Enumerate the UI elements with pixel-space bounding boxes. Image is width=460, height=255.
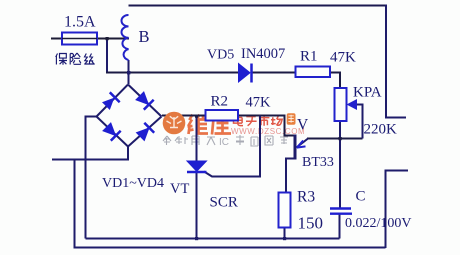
wire right rail lower with load stub: [386, 171, 409, 249]
svg-text:KPA: KPA: [353, 85, 382, 101]
svg-text:C: C: [356, 189, 366, 205]
wire fuse to junction: [97, 38, 129, 40]
diode VD3 bottom-left (points to bottom vertex): [102, 122, 121, 141]
wire SCR cathode down: [196, 172, 198, 239]
BT33 emitter diagonal: [297, 139, 309, 148]
svg-text:47K: 47K: [246, 95, 272, 111]
diode bridge VD1~VD4: [97, 85, 162, 147]
wire R2 to V node corner down to BT33 base2: [238, 116, 295, 136]
svg-text:B: B: [139, 27, 150, 46]
potentiometer KPA wiper arrow: [347, 99, 358, 110]
svg-text:0.022/100V: 0.022/100V: [345, 216, 412, 231]
transformer coil B: [122, 15, 129, 60]
node R2 input wire from bridge right vertex: [162, 115, 206, 117]
wire BT33 base1 elbow to R3: [286, 159, 295, 193]
wire right rail upper: [386, 5, 406, 118]
fuse F 1.5A: [62, 33, 97, 45]
svg-text:220K: 220K: [364, 122, 398, 138]
svg-text:SCR: SCR: [210, 195, 238, 211]
wire SCR gate to V node riser: [204, 116, 260, 177]
junction dot SCR anode on R2 wire: [195, 115, 198, 118]
wire bridge bottom vertex down to AC input 2 line: [52, 146, 128, 160]
junction dot SCR cathode on inner rail: [195, 237, 198, 240]
watermark logo circle: [163, 112, 186, 135]
junction dot R3 on inner rail: [283, 237, 286, 240]
bridge side bottom-right wire: [128, 117, 162, 147]
wire outer bottom rail: [74, 247, 386, 249]
svg-text:IC: IC: [219, 137, 229, 148]
wire VD5 cathode to R1: [252, 72, 296, 74]
wire fuse input lead: [51, 38, 62, 40]
BT33 emitter arrowhead: [297, 141, 306, 148]
svg-text:R3: R3: [297, 189, 315, 206]
wire R3 bottom lead: [284, 228, 286, 239]
junction dot fuse tap: [106, 37, 109, 40]
svg-text:47K: 47K: [330, 50, 356, 66]
label fuse chinese 保险丝: [56, 53, 95, 65]
wire KPA bottom lead to capacitor top: [339, 121, 341, 208]
svg-text:BT33: BT33: [302, 155, 334, 170]
resistor R1 47K: [296, 67, 331, 78]
junction dot emitter / KPA lead: [339, 137, 342, 140]
diode VD4 bottom-right (points to right vertex): [135, 123, 154, 142]
junction dot rectifier rail / coil bottom: [127, 71, 130, 74]
svg-text:R2: R2: [211, 94, 229, 110]
wire outer left vertical: [74, 160, 76, 248]
svg-text:VD1~VD4: VD1~VD4: [102, 176, 164, 191]
svg-text:VT: VT: [170, 181, 189, 197]
resistor R3 150: [279, 193, 291, 228]
bridge side top-left wire: [97, 85, 129, 117]
wire KPA wiper tail corner down: [356, 105, 363, 139]
wire top rail: [129, 5, 387, 7]
wire SCR anode: [196, 116, 198, 162]
wire coil bottom / bridge top junction: [128, 60, 130, 84]
bridge side top-right wire: [128, 85, 162, 117]
watermark text 全球最大IC采购网站 (gray): [163, 134, 288, 148]
svg-text:1.5A: 1.5A: [64, 14, 96, 31]
wire capacitor bottom lead: [339, 214, 341, 239]
svg-text:IN4007: IN4007: [241, 46, 285, 62]
wire junction down to rectifier rail: [106, 39, 108, 73]
bridge side bottom-left wire: [97, 117, 129, 147]
wire R1 to KPA top corner: [330, 73, 340, 89]
BT33 base bar: [294, 135, 297, 160]
resistor R2 47K: [206, 110, 239, 121]
svg-text:V: V: [297, 117, 309, 134]
svg-text:150: 150: [298, 214, 324, 233]
diode VD2 top-right (points to right vertex): [135, 91, 154, 110]
wire BT33 emitter horizontal: [307, 138, 363, 140]
diode VD1 top-left (points to top vertex): [101, 92, 120, 111]
watermark text 电子市场 (red outline): [234, 115, 283, 126]
watermark text 维库 (bold orange): [188, 114, 232, 135]
thyristor VT SCR: [187, 161, 207, 172]
watermark logo block (orange square 网): [287, 113, 296, 124]
wire bridge left vertex elbow down: [86, 117, 98, 239]
potentiometer KPA body: [335, 88, 347, 121]
diode VD5 IN4007: [239, 64, 252, 83]
capacitor C 0.022/100V: [330, 209, 352, 214]
wire rectifier rail left (to VD5 anode): [106, 72, 238, 74]
transistor BT33 (unijunction): [295, 135, 308, 160]
svg-text:VD5: VD5: [207, 48, 234, 63]
wire inner bottom rail: [86, 238, 340, 240]
svg-text:R1: R1: [300, 49, 318, 65]
